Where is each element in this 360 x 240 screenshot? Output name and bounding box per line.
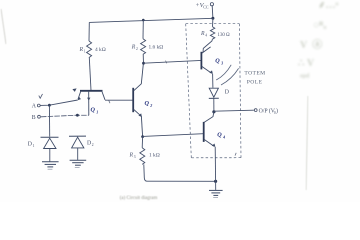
label R4 bbox=[200, 31, 207, 38]
svg-text:D: D bbox=[225, 90, 229, 96]
wire: +Vcc top rail bbox=[89, 18, 213, 22]
wire: Q4 emitter to ground junction bbox=[214, 147, 216, 181]
wire: R2 to junction bbox=[142, 54, 144, 63]
wire: Vcc terminal drop bbox=[211, 6, 214, 18]
Q2 emitter bbox=[134, 109, 142, 116]
wire: rail down to R1 bbox=[88, 22, 90, 41]
label TOTEM POLE bbox=[244, 71, 265, 86]
svg-text:1: 1 bbox=[84, 50, 86, 54]
Q3 collector bbox=[202, 47, 211, 53]
diode D1 bbox=[41, 136, 59, 138]
label D1 bbox=[28, 142, 35, 149]
junction dot A / D1 bbox=[48, 104, 51, 107]
svg-text:B: B bbox=[32, 115, 36, 121]
svg-text:TOTEM: TOTEM bbox=[244, 71, 265, 77]
label R1 bbox=[79, 47, 86, 54]
svg-text:4: 4 bbox=[205, 33, 207, 37]
ground (D2) bbox=[70, 160, 87, 165]
wire: bottom ground rail bbox=[147, 180, 216, 182]
Q1 emitter 1 bbox=[78, 92, 81, 100]
svg-text:POLE: POLE bbox=[247, 79, 263, 85]
resistor R1 bbox=[87, 41, 92, 58]
svg-text:CC: CC bbox=[203, 4, 209, 9]
wire: D1 to ground bbox=[49, 149, 51, 162]
stray tick on collector wire bbox=[109, 100, 110, 103]
junction dot Q2 emitter / R3 / Q4 base bbox=[141, 135, 144, 138]
wire: output junction to Q4 collector bbox=[204, 112, 214, 123]
junction dot B / D2 bbox=[76, 114, 79, 117]
svg-text:3: 3 bbox=[220, 61, 223, 66]
wire: rail to R2 bbox=[142, 20, 144, 39]
svg-text:V ⓐ: V ⓐ bbox=[300, 38, 322, 51]
diode D bbox=[209, 88, 218, 97]
svg-text:ᵒᵖᵈ: ᵒᵖᵈ bbox=[300, 72, 310, 83]
svg-text:○ᴿₒ: ○ᴿₒ bbox=[313, 20, 326, 31]
label Q3 bbox=[215, 58, 223, 66]
svg-text:∴ V: ∴ V bbox=[298, 58, 315, 69]
label R2 bbox=[131, 45, 138, 52]
Q1 collector bbox=[102, 92, 105, 100]
svg-text:Q: Q bbox=[217, 132, 222, 139]
svg-text:⸙…ᵒ: ⸙…ᵒ bbox=[318, 0, 339, 11]
Q2 collector bbox=[134, 63, 144, 91]
resistor R2 bbox=[141, 39, 146, 55]
faint bleed-through text right side bbox=[298, 0, 339, 83]
wire: R1 to Q1 base bbox=[89, 58, 91, 91]
wire: input B to Q1 emitter2 bbox=[41, 115, 89, 117]
svg-text:2: 2 bbox=[92, 143, 94, 147]
svg-text:2: 2 bbox=[136, 47, 138, 51]
junction dot output bbox=[212, 110, 215, 113]
Q4 emitter bbox=[204, 139, 214, 146]
transistor Q2 base bar bbox=[132, 88, 134, 112]
transistor Q1 multi-emitter base bar bbox=[80, 90, 103, 92]
junction dot Vcc/rail bbox=[211, 17, 214, 20]
check mark above A bbox=[39, 94, 43, 98]
svg-text:1 kΩ: 1 kΩ bbox=[149, 153, 160, 159]
annotation arcs totem pole bbox=[216, 65, 231, 80]
wire: D1 column bbox=[48, 105, 50, 136]
Q3 emitter bbox=[202, 66, 212, 73]
svg-text:3: 3 bbox=[134, 155, 136, 159]
svg-text:D: D bbox=[28, 142, 32, 148]
svg-text:A: A bbox=[32, 104, 37, 110]
svg-text:D: D bbox=[87, 141, 91, 147]
Q1 emitter 2 bbox=[88, 92, 90, 116]
junction dot ground rail bbox=[214, 180, 217, 183]
diode D2 bbox=[69, 135, 86, 137]
wire: diode to output junction bbox=[213, 98, 215, 111]
svg-text:1.6 kΩ: 1.6 kΩ bbox=[149, 45, 164, 51]
wire: R3 to bottom rail bbox=[144, 164, 147, 181]
wire: junction to R3 bbox=[141, 137, 143, 148]
svg-text:Q: Q bbox=[215, 58, 220, 65]
svg-text:1: 1 bbox=[96, 110, 98, 115]
wire: Q3 emitter to diode D bbox=[212, 74, 214, 88]
svg-text:Q: Q bbox=[91, 107, 96, 114]
svg-text:130 Ω: 130 Ω bbox=[218, 33, 231, 38]
label R3 bbox=[129, 153, 136, 160]
label O/P (V0) bbox=[259, 107, 278, 114]
wire: junction to Q3 base bbox=[144, 60, 202, 63]
wire: ground stub bbox=[215, 181, 217, 190]
svg-text:Q: Q bbox=[145, 100, 150, 107]
faint bleed-through vertical line right side bbox=[306, 96, 308, 190]
wire: junction to Q4 base bbox=[143, 134, 204, 137]
svg-text:4 kΩ: 4 kΩ bbox=[95, 47, 106, 53]
resistor R4 bbox=[210, 27, 214, 39]
label +Vcc bbox=[195, 2, 209, 9]
wire: D2 to ground bbox=[77, 148, 79, 160]
ground (D1) bbox=[42, 162, 59, 167]
stray tick on Q3 base wire bbox=[166, 61, 167, 64]
label Q2 bbox=[145, 100, 153, 108]
junction dot R2/Q2/Q3 bbox=[142, 62, 145, 65]
wire: Vcc junction into box to R4 bbox=[212, 18, 214, 27]
resistor R3 bbox=[140, 148, 145, 165]
svg-text:(a) Circuit diagram: (a) Circuit diagram bbox=[120, 196, 158, 201]
label Q4 bbox=[217, 132, 225, 140]
transistor Q3 base bar bbox=[200, 52, 202, 70]
svg-text:2: 2 bbox=[149, 103, 152, 108]
ground (main) bbox=[209, 190, 223, 195]
Vcc terminal circle bbox=[210, 3, 213, 6]
svg-text:): ) bbox=[276, 107, 278, 114]
wire: output junction to terminal bbox=[214, 110, 254, 111]
output terminal circle bbox=[254, 109, 257, 112]
wire: R4 down to Q3 collector bbox=[203, 39, 212, 52]
svg-text:1: 1 bbox=[33, 144, 35, 148]
stray tick inside box corner bbox=[235, 153, 236, 156]
wire: input A to Q1 emitter1 bbox=[40, 100, 77, 105]
label D2 bbox=[87, 141, 94, 148]
faint page-edge diagonal top-left bbox=[1, 9, 6, 44]
wire: Q1 collector to Q2 base bbox=[105, 99, 133, 101]
label Q1 bbox=[91, 107, 99, 115]
junction dot rail/R2 bbox=[142, 19, 145, 22]
Q1 stray arrowhead left of bar bbox=[72, 88, 76, 92]
dashed totem-pole box bbox=[186, 24, 241, 158]
transistor Q4 base bar bbox=[203, 122, 205, 142]
svg-text:4: 4 bbox=[222, 135, 225, 140]
